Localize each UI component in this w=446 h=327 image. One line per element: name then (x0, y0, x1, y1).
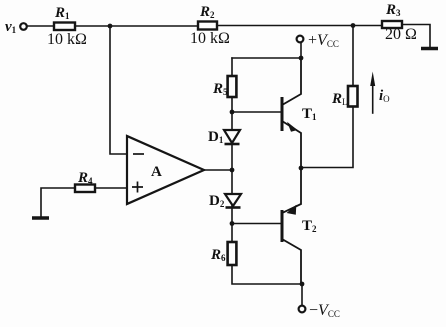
svg-text:10 kΩ: 10 kΩ (47, 31, 87, 48)
svg-text:10 kΩ: 10 kΩ (190, 30, 230, 47)
svg-text:A: A (151, 164, 162, 180)
svg-text:20 Ω: 20 Ω (385, 26, 417, 43)
